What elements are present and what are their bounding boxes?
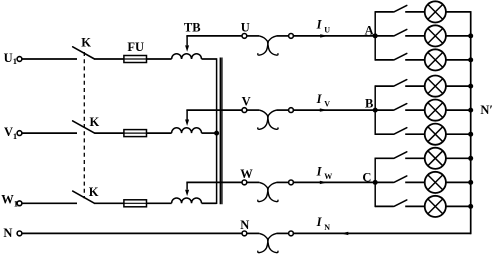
- terminal N: [242, 231, 247, 236]
- wire: [22, 132, 77, 134]
- wire: [277, 232, 289, 234]
- wiper arrow (phase W): [186, 182, 188, 189]
- wire: [446, 59, 471, 61]
- svg-text:1: 1: [13, 131, 17, 141]
- current arrow I_V: [320, 108, 328, 111]
- wire: [186, 181, 242, 183]
- junction: [468, 33, 473, 38]
- fuse (phase W): [124, 200, 147, 207]
- wire: [446, 85, 471, 87]
- wire: [405, 59, 425, 61]
- svg-text:U: U: [4, 51, 13, 65]
- wire: [446, 133, 471, 135]
- lamp bank right bus (N'): [470, 11, 472, 234]
- svg-text:V: V: [324, 100, 330, 109]
- wire: [446, 11, 471, 13]
- wire: [277, 181, 289, 183]
- transformer winding (phase U): [172, 54, 202, 59]
- lamp switch 7: [394, 152, 407, 159]
- junction: [468, 204, 473, 209]
- current transformer (phase V): [259, 110, 278, 129]
- wire: [247, 232, 259, 234]
- wire: [277, 35, 289, 37]
- wire: [405, 11, 425, 13]
- wire: [446, 35, 471, 37]
- wire: [375, 109, 393, 111]
- wire: [277, 109, 289, 111]
- wiper arrow (phase V): [186, 110, 188, 119]
- transformer star-point bus: [216, 58, 218, 204]
- wire: [22, 58, 77, 60]
- wire: [405, 109, 425, 111]
- svg-text:1: 1: [14, 199, 18, 209]
- lamp switch 6: [394, 128, 407, 135]
- wire: [375, 85, 393, 87]
- lamp group C bus: [374, 158, 376, 208]
- lamp switch 9: [394, 200, 407, 207]
- wire: [405, 35, 425, 37]
- wire: [375, 157, 393, 159]
- wire: [446, 181, 471, 183]
- svg-text:V: V: [4, 125, 13, 139]
- svg-text:K: K: [90, 115, 100, 129]
- terminal W1: [17, 201, 22, 206]
- svg-text:W: W: [324, 172, 332, 181]
- transformer winding (phase V): [172, 128, 202, 133]
- terminal U: [242, 34, 247, 39]
- svg-text:A: A: [365, 24, 374, 38]
- wire: [375, 11, 393, 13]
- svg-text:N: N: [240, 218, 249, 232]
- svg-text:N: N: [3, 226, 12, 240]
- wire: [147, 202, 172, 204]
- current arrow I_W: [320, 181, 328, 184]
- wire: [293, 35, 375, 37]
- wire: [22, 202, 77, 204]
- svg-text:W: W: [1, 193, 14, 207]
- terminal N: [17, 231, 22, 236]
- transformer winding (phase W): [172, 198, 202, 203]
- svg-text:U: U: [241, 20, 250, 34]
- lamp switch 2: [394, 29, 407, 36]
- wire: [95, 132, 124, 134]
- terminal W: [242, 180, 247, 185]
- junction: [468, 108, 473, 113]
- lamp switch 3: [394, 53, 407, 60]
- wire: [375, 205, 393, 207]
- svg-text:B: B: [365, 97, 373, 111]
- terminal U1: [17, 57, 22, 62]
- wire: [405, 181, 425, 183]
- lamp group B bus: [374, 85, 376, 135]
- node circle: [289, 180, 294, 185]
- lamp 6: [425, 124, 446, 145]
- svg-text:N′: N′: [480, 103, 493, 117]
- wiper arrow (phase U): [186, 36, 188, 46]
- wire: [293, 181, 375, 183]
- wire: [202, 132, 217, 134]
- node circle: [289, 231, 294, 236]
- svg-text:U: U: [324, 25, 330, 34]
- lamp switch 5: [394, 104, 407, 111]
- node A: [373, 33, 378, 38]
- junction: [468, 57, 473, 62]
- junction: [468, 156, 473, 161]
- current transformer (phase N): [259, 233, 278, 252]
- lamp 1: [425, 1, 446, 22]
- wire: [247, 109, 259, 111]
- current transformer (phase U): [259, 36, 278, 55]
- switch K (phase U): [73, 47, 95, 59]
- current arrow I_N: [340, 232, 348, 235]
- wire: [446, 157, 471, 159]
- wire: [202, 58, 217, 60]
- svg-text:W: W: [240, 167, 253, 181]
- svg-text:FU: FU: [127, 40, 144, 54]
- junction: [468, 180, 473, 185]
- wire: [375, 181, 393, 183]
- lamp 7: [425, 148, 446, 169]
- lamp 9: [425, 196, 446, 217]
- wire: [22, 232, 242, 234]
- junction: [468, 132, 473, 137]
- wire: [375, 59, 393, 61]
- wire: [186, 35, 242, 37]
- junction: [468, 84, 473, 89]
- switch K (phase W): [73, 191, 95, 203]
- svg-text:TB: TB: [184, 20, 201, 34]
- svg-text:1: 1: [13, 56, 17, 66]
- wire: [375, 35, 393, 37]
- svg-text:C: C: [362, 170, 371, 184]
- node C: [373, 180, 378, 185]
- lamp 8: [425, 172, 446, 193]
- lamp switch 8: [394, 176, 407, 183]
- lamp 2: [425, 25, 446, 46]
- wire: [186, 109, 242, 111]
- current arrow I_U: [320, 34, 328, 37]
- lamp switch 1: [394, 5, 407, 11]
- wire: [405, 157, 425, 159]
- fuse FU (phase U): [124, 56, 147, 63]
- junction (V winding to bus): [214, 131, 219, 136]
- fuse (phase V): [124, 130, 147, 137]
- lamp group A bus: [374, 11, 376, 61]
- wire: [375, 133, 393, 135]
- transformer core: [219, 58, 221, 205]
- wire: [95, 202, 124, 204]
- wire: [405, 85, 425, 87]
- wire: [405, 133, 425, 135]
- wire: [147, 58, 172, 60]
- wire: [202, 202, 217, 204]
- wire: [446, 205, 471, 207]
- wire: [95, 58, 124, 60]
- wire: [247, 181, 259, 183]
- lamp 4: [425, 76, 446, 97]
- wire: [405, 205, 425, 207]
- wire: [293, 109, 375, 111]
- current transformer (phase W): [259, 182, 278, 201]
- svg-text:K: K: [81, 36, 91, 50]
- svg-text:N: N: [324, 223, 330, 232]
- terminal V: [242, 108, 247, 113]
- wire: [247, 35, 259, 37]
- wire: [147, 132, 172, 134]
- wire: [446, 109, 471, 111]
- svg-text:V: V: [242, 94, 251, 108]
- switch K (phase V): [73, 121, 95, 133]
- svg-text:K: K: [89, 185, 99, 199]
- node circle: [289, 108, 294, 113]
- lamp switch 4: [394, 80, 407, 87]
- wire: [293, 232, 470, 234]
- terminal V1: [17, 131, 22, 136]
- switch gang linkage (dashed): [83, 52, 85, 199]
- node circle: [289, 34, 294, 39]
- lamp 5: [425, 100, 446, 121]
- lamp 3: [425, 49, 446, 70]
- node B: [373, 108, 378, 113]
